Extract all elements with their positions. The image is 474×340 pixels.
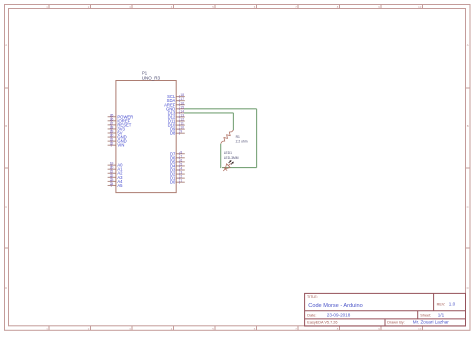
wire D13 net: horizontal from pin D13 (184, 112, 233, 114)
svg-text:D0: D0 (170, 180, 176, 185)
svg-text:Date:: Date: (307, 313, 316, 317)
title block (305, 293, 466, 326)
svg-text:VIN: VIN (117, 143, 124, 148)
pin 31 GND (108, 138, 127, 144)
svg-text:C: C (467, 205, 469, 209)
wire GND net: right vertical segment (256, 109, 258, 168)
part value UNO_R3 (142, 76, 161, 81)
svg-text:REV:: REV: (437, 302, 446, 306)
svg-text:9: 9 (180, 130, 182, 134)
pin 12 D11 (168, 118, 185, 124)
pin 2 D1 (170, 175, 185, 181)
svg-text:C: C (5, 205, 7, 209)
date 23-09-2018 (307, 313, 350, 318)
pin 19 A0 (108, 162, 124, 168)
pin 30 GND (108, 134, 127, 140)
wire GND net: bottom horizontal segment (222, 167, 257, 169)
wire node: resistor R1 to LED1 vertical segment (220, 144, 222, 168)
svg-text:D: D (5, 286, 7, 290)
sheet 1/1 (420, 313, 444, 318)
svg-text:Mr. Zouari Lazhar: Mr. Zouari Lazhar (413, 320, 449, 325)
pin 20 A1 (108, 166, 124, 172)
pin 32 VIN (108, 142, 125, 148)
resistor R1 (221, 130, 234, 144)
title text Code Morse - Arduino (307, 295, 363, 309)
svg-text:A: A (5, 43, 7, 47)
svg-text:A: A (467, 43, 469, 47)
pin 6 D5 (170, 158, 185, 164)
drawn by Mr. Zouari Lazhar (387, 320, 449, 325)
svg-text:23-09-2018: 23-09-2018 (327, 313, 351, 318)
pin 18 SCL (167, 93, 185, 99)
wire GND net: horizontal from pin GND (184, 108, 257, 110)
svg-text:D8: D8 (170, 131, 176, 136)
designator LED1 and value LED-3MM (224, 151, 239, 160)
pin 27 RESET (108, 121, 132, 127)
svg-text:24: 24 (110, 182, 114, 186)
LED LED1 symbol (223, 160, 234, 171)
pin 26 IOREF (108, 117, 131, 123)
wire D13 net: vertical to resistor R1 (232, 113, 234, 130)
svg-text:32: 32 (110, 142, 114, 146)
pin 11 D10 (168, 122, 185, 128)
pin 28 3V3 (108, 125, 126, 131)
pin 21 A2 (108, 170, 124, 176)
revision REV 1.0 (437, 302, 456, 307)
pin 10 D9 (170, 126, 185, 132)
svg-text:10: 10 (418, 5, 422, 9)
svg-text:D: D (467, 286, 469, 290)
svg-text:B: B (5, 124, 7, 128)
pin 8 D7 (170, 150, 185, 156)
svg-text:2.2 ohm: 2.2 ohm (236, 139, 248, 143)
svg-text:Sheet:: Sheet: (420, 313, 431, 317)
svg-text:Code Morse - Arduino: Code Morse - Arduino (308, 303, 362, 309)
pin 5 D4 (170, 162, 185, 168)
tool version EasyEDA V5.7.26 (307, 320, 337, 324)
pin 7 D6 (170, 154, 185, 160)
svg-text:EasyEDA V5.7.26: EasyEDA V5.7.26 (307, 320, 337, 324)
reference designator P1 (142, 70, 148, 75)
svg-text:10: 10 (418, 327, 422, 331)
pin 17 SDA (167, 97, 185, 103)
svg-text:A5: A5 (117, 183, 123, 188)
value label 2.2 ohm of R1 (236, 135, 248, 143)
pin 29 5V (108, 130, 123, 136)
pin 15 GND (166, 105, 185, 111)
pin 14 D13 (168, 109, 185, 115)
IC P1 UNO_R3 (Arduino Uno R3) body (116, 81, 176, 193)
svg-text:Drawn By:: Drawn By: (387, 320, 405, 324)
pin 4 D3 (170, 167, 185, 173)
pin 22 A3 (108, 174, 124, 180)
pin 16 AREF (164, 101, 185, 107)
pin 24 A5 (108, 182, 124, 188)
pin 1 D0 (170, 179, 185, 185)
svg-text:LED1: LED1 (224, 151, 232, 155)
svg-text:P1: P1 (142, 70, 148, 75)
svg-text:1: 1 (180, 179, 182, 183)
svg-text:1.0: 1.0 (449, 302, 456, 307)
svg-text:LED-3MM: LED-3MM (224, 156, 239, 160)
pin 25 POWER (108, 113, 134, 119)
svg-text:1/1: 1/1 (438, 313, 445, 318)
pin 3 D2 (170, 171, 185, 177)
pin 13 D12 (168, 114, 185, 120)
pin 23 A4 (108, 178, 124, 184)
svg-text:TITLE:: TITLE: (307, 295, 318, 299)
svg-text:UNO_R3: UNO_R3 (142, 76, 161, 81)
pin 9 D8 (170, 130, 185, 136)
svg-text:B: B (467, 124, 469, 128)
